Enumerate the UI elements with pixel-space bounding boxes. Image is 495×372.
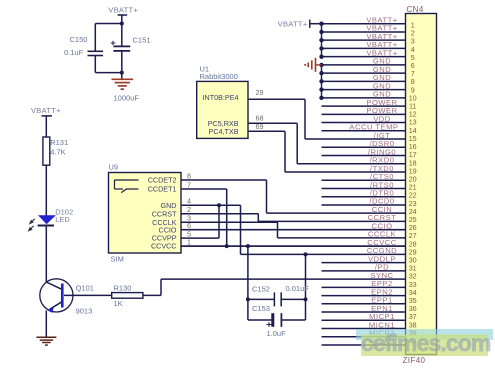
svg-text:LED: LED bbox=[55, 215, 70, 224]
svg-text:0.1uF: 0.1uF bbox=[64, 48, 84, 57]
svg-text:9013: 9013 bbox=[76, 307, 93, 316]
svg-text:C151: C151 bbox=[133, 35, 151, 44]
svg-text:C153: C153 bbox=[252, 304, 270, 313]
svg-text:C152: C152 bbox=[252, 284, 270, 293]
svg-text:C150: C150 bbox=[70, 35, 88, 44]
svg-text:1000uF: 1000uF bbox=[114, 94, 140, 103]
svg-text:4.7K: 4.7K bbox=[50, 148, 65, 157]
svg-text:Rabbit3000: Rabbit3000 bbox=[200, 72, 238, 81]
svg-text:cefimes.com: cefimes.com bbox=[361, 330, 491, 356]
svg-text:Q101: Q101 bbox=[76, 283, 94, 292]
svg-text:R131: R131 bbox=[50, 138, 68, 147]
svg-text:CCDET2: CCDET2 bbox=[148, 176, 177, 185]
svg-text:R130: R130 bbox=[114, 284, 132, 293]
svg-text:VBATT+: VBATT+ bbox=[278, 19, 308, 28]
svg-text:INT0B:PE4: INT0B:PE4 bbox=[203, 93, 239, 102]
svg-text:PC4,TXB: PC4,TXB bbox=[209, 127, 239, 136]
svg-text:1K: 1K bbox=[114, 299, 123, 308]
svg-text:VBATT+: VBATT+ bbox=[108, 6, 138, 15]
svg-text:7: 7 bbox=[187, 180, 191, 189]
svg-text:8: 8 bbox=[187, 171, 191, 180]
svg-text:SIM: SIM bbox=[111, 254, 124, 263]
svg-text:CCDET1: CCDET1 bbox=[148, 185, 177, 194]
svg-text:29: 29 bbox=[256, 88, 264, 97]
svg-text:1.0uF: 1.0uF bbox=[267, 329, 287, 338]
svg-text:CCVCC: CCVCC bbox=[151, 242, 177, 251]
svg-text:U9: U9 bbox=[109, 162, 119, 171]
svg-text:0.01uF: 0.01uF bbox=[286, 284, 310, 293]
svg-text:ZIF40: ZIF40 bbox=[403, 356, 426, 365]
svg-text:VBATT+: VBATT+ bbox=[31, 106, 61, 115]
svg-text:CN4: CN4 bbox=[407, 5, 424, 14]
